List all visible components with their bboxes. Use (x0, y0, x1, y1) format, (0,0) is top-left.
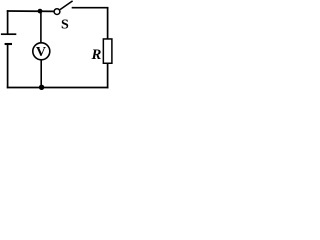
wire top-right horizontal (72, 7, 109, 9)
wire right vertical upper (107, 7, 109, 39)
resistor R (90, 39, 111, 63)
svg-text:S: S (61, 17, 69, 32)
wire voltmeter branch upper (40, 11, 42, 43)
wire left vertical lower (7, 44, 9, 88)
battery cell (1, 34, 16, 44)
wire top-left horizontal (7, 10, 54, 12)
node junction bottom (39, 85, 44, 90)
wire left vertical upper (7, 10, 9, 34)
wire bottom horizontal (7, 87, 109, 89)
switch S (54, 1, 73, 32)
node junction top (38, 9, 43, 14)
svg-text:V: V (36, 45, 46, 60)
wire right vertical lower (107, 64, 109, 89)
svg-text:R: R (90, 47, 101, 63)
wire voltmeter branch lower (40, 60, 42, 87)
voltmeter V (33, 43, 50, 60)
